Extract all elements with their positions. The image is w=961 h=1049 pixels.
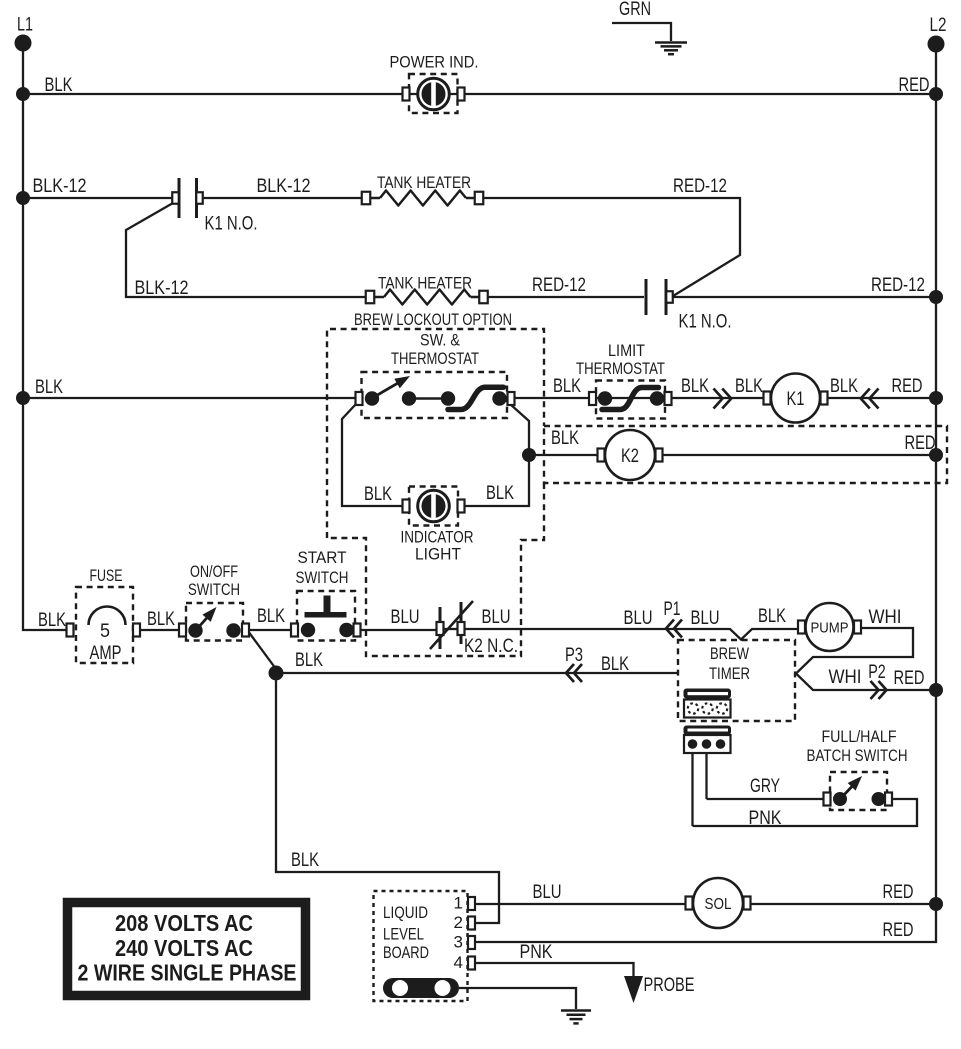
svg-text:BLK: BLK xyxy=(830,376,858,397)
svg-text:LIGHT: LIGHT xyxy=(415,545,461,564)
svg-text:BLK: BLK xyxy=(553,376,581,397)
svg-text:BLK: BLK xyxy=(681,376,709,397)
svg-text:RED-12: RED-12 xyxy=(871,275,925,296)
svg-text:K2: K2 xyxy=(621,446,639,467)
svg-text:BLK: BLK xyxy=(364,484,392,505)
svg-text:GRY: GRY xyxy=(750,776,780,797)
svg-text:BREW: BREW xyxy=(710,644,749,663)
svg-text:BLU: BLU xyxy=(482,607,511,628)
svg-text:BLK: BLK xyxy=(257,606,285,627)
svg-text:BLK: BLK xyxy=(291,850,319,871)
svg-text:SOL: SOL xyxy=(705,896,732,913)
svg-text:BATCH SWITCH: BATCH SWITCH xyxy=(807,746,908,765)
svg-text:PUMP: PUMP xyxy=(811,619,849,636)
svg-text:208 VOLTS AC: 208 VOLTS AC xyxy=(115,910,253,936)
svg-text:K1 N.O.: K1 N.O. xyxy=(679,312,732,333)
svg-text:RED: RED xyxy=(892,376,923,397)
svg-text:PNK: PNK xyxy=(520,942,553,963)
svg-text:LEVEL: LEVEL xyxy=(383,925,424,944)
svg-text:FULL/HALF: FULL/HALF xyxy=(822,727,897,746)
svg-text:TANK HEATER: TANK HEATER xyxy=(378,274,472,293)
svg-text:2: 2 xyxy=(454,913,463,932)
svg-text:BLK: BLK xyxy=(601,654,629,675)
svg-text:WHI: WHI xyxy=(869,607,902,628)
svg-text:BLK: BLK xyxy=(35,377,63,398)
svg-text:P1: P1 xyxy=(664,599,681,620)
svg-text:ON/OFF: ON/OFF xyxy=(190,562,238,581)
svg-text:LIQUID: LIQUID xyxy=(383,903,428,922)
svg-text:THERMOSTAT: THERMOSTAT xyxy=(576,359,665,378)
svg-text:BLU: BLU xyxy=(533,882,562,903)
svg-text:3: 3 xyxy=(454,933,463,952)
svg-text:240 VOLTS AC: 240 VOLTS AC xyxy=(115,935,253,961)
svg-text:RED: RED xyxy=(883,882,914,903)
svg-text:GRN: GRN xyxy=(619,0,651,20)
svg-text:BLK: BLK xyxy=(295,650,323,671)
svg-text:PROBE: PROBE xyxy=(644,975,695,996)
svg-text:RED: RED xyxy=(894,668,925,689)
svg-text:TANK HEATER: TANK HEATER xyxy=(377,173,471,192)
svg-text:SWITCH: SWITCH xyxy=(188,580,240,599)
svg-text:BREW LOCKOUT OPTION: BREW LOCKOUT OPTION xyxy=(354,310,512,329)
svg-text:BLK-12: BLK-12 xyxy=(135,278,189,299)
svg-text:K1 N.O.: K1 N.O. xyxy=(205,214,258,235)
svg-text:BLK: BLK xyxy=(147,609,175,630)
svg-text:WHI: WHI xyxy=(829,667,862,688)
svg-text:LIMIT: LIMIT xyxy=(608,341,645,360)
svg-text:4: 4 xyxy=(454,953,463,972)
svg-text:K2 N.C.: K2 N.C. xyxy=(464,636,518,657)
svg-text:RED: RED xyxy=(905,433,936,454)
svg-text:5: 5 xyxy=(100,621,110,642)
svg-text:RED-12: RED-12 xyxy=(673,176,727,197)
svg-text:AMP: AMP xyxy=(90,643,122,664)
svg-text:BLK: BLK xyxy=(45,75,73,96)
svg-text:L2: L2 xyxy=(930,15,947,36)
svg-text:START: START xyxy=(298,548,347,567)
svg-text:K1: K1 xyxy=(787,389,805,410)
svg-text:P2: P2 xyxy=(868,662,886,683)
svg-text:BLU: BLU xyxy=(391,607,420,628)
svg-text:TIMER: TIMER xyxy=(709,664,750,683)
svg-text:BLK: BLK xyxy=(735,376,763,397)
svg-text:THERMOSTAT: THERMOSTAT xyxy=(391,349,479,368)
svg-text:RED: RED xyxy=(883,920,914,941)
svg-text:BLU: BLU xyxy=(624,608,653,629)
svg-text:P3: P3 xyxy=(565,645,583,666)
svg-text:FUSE: FUSE xyxy=(90,566,123,585)
svg-text:BLU: BLU xyxy=(691,608,720,629)
svg-text:POWER IND.: POWER IND. xyxy=(390,53,479,72)
svg-text:SW. &: SW. & xyxy=(420,331,461,350)
svg-text:L1: L1 xyxy=(17,15,33,36)
svg-text:BLK-12: BLK-12 xyxy=(257,176,311,197)
svg-text:SWITCH: SWITCH xyxy=(296,568,349,587)
svg-text:BOARD: BOARD xyxy=(383,943,429,962)
svg-text:BLK-12: BLK-12 xyxy=(33,176,87,197)
svg-text:RED-12: RED-12 xyxy=(532,275,586,296)
svg-text:BLK: BLK xyxy=(38,610,66,631)
svg-text:BLK: BLK xyxy=(551,428,579,449)
svg-text:1: 1 xyxy=(454,894,463,913)
svg-text:PNK: PNK xyxy=(749,808,782,829)
svg-text:BLK: BLK xyxy=(486,483,514,504)
svg-text:2 WIRE SINGLE PHASE: 2 WIRE SINGLE PHASE xyxy=(78,960,297,986)
svg-text:RED: RED xyxy=(899,75,930,96)
svg-text:BLK: BLK xyxy=(758,606,786,627)
